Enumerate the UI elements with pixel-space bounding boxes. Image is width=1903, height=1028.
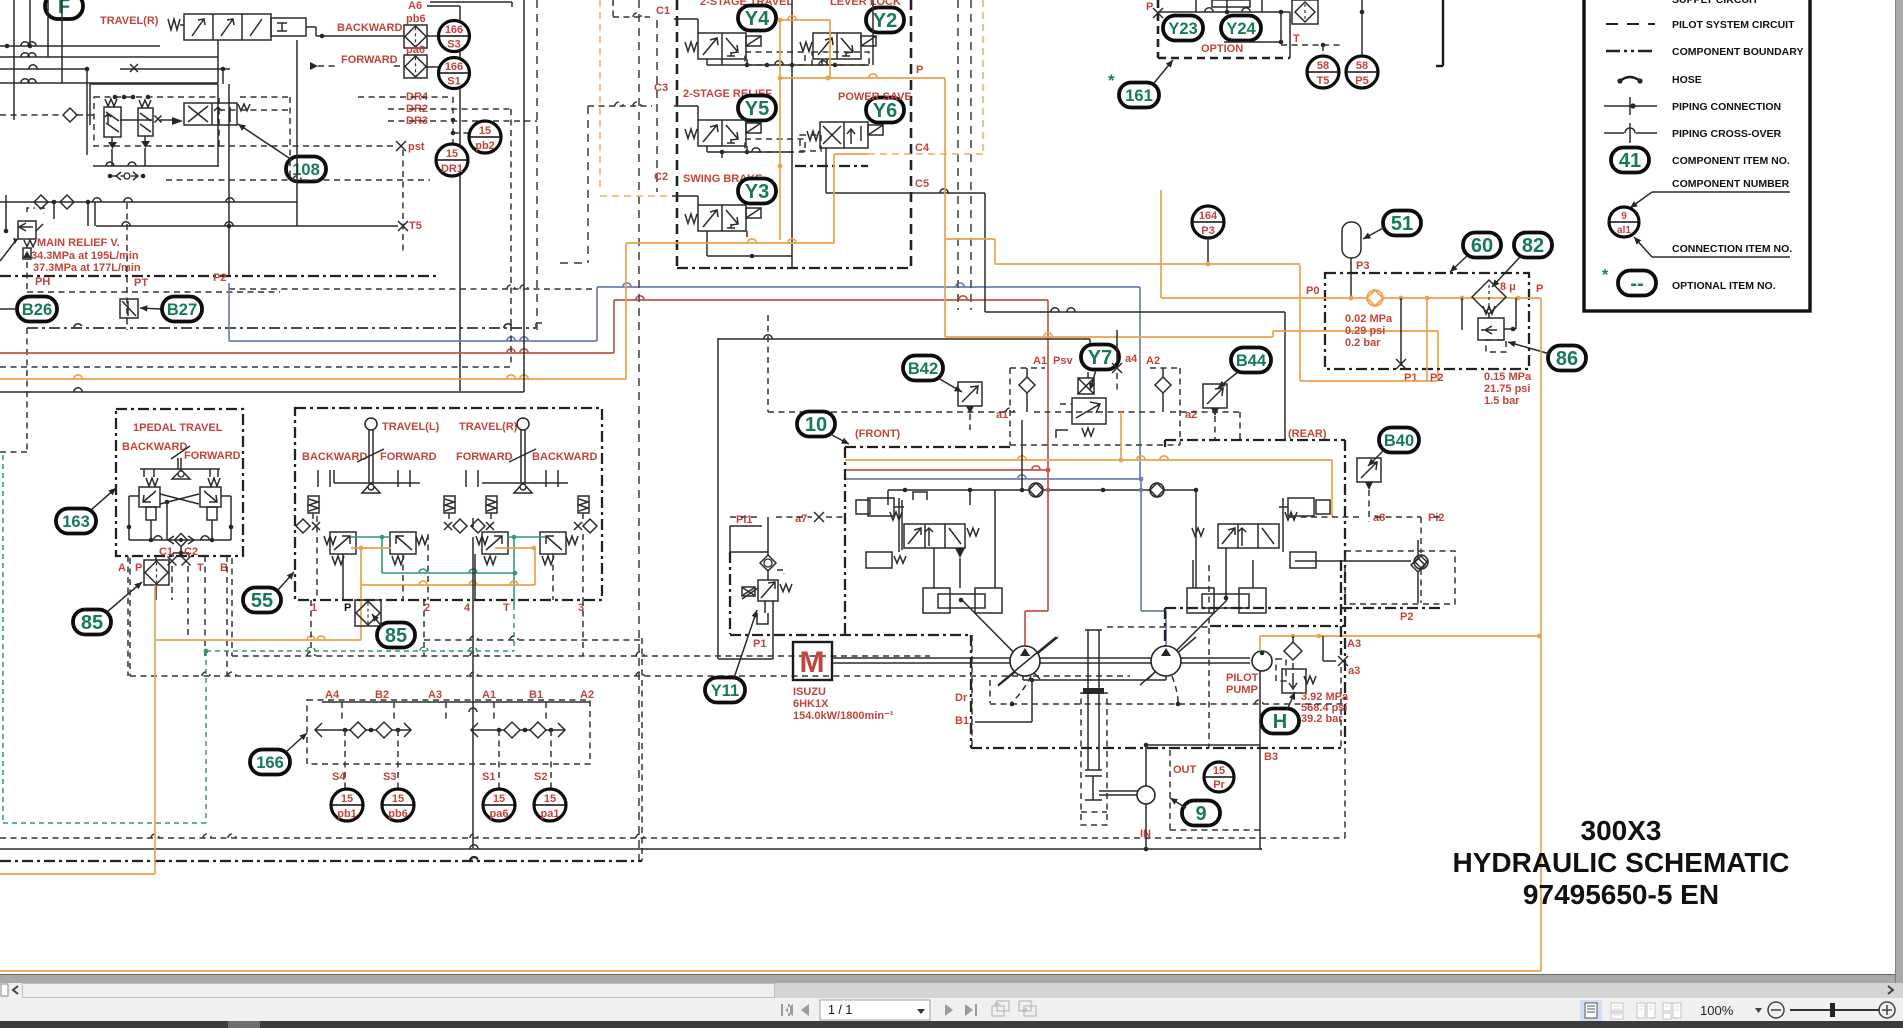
nav next/last: [945, 1004, 977, 1016]
svg-text:T: T: [503, 602, 510, 614]
svg-text:P: P: [1146, 1, 1153, 13]
svg-text:A2: A2: [1146, 355, 1160, 367]
svg-text:TRAVEL(L): TRAVEL(L): [382, 421, 440, 433]
svg-text:B26: B26: [22, 301, 52, 319]
valve small A: [104, 107, 121, 137]
svg-text:Y11: Y11: [711, 682, 739, 700]
svg-text:9: 9: [1195, 803, 1206, 825]
wire bus black return: [0, 391, 524, 393]
wire bank internal T-line: [791, 0, 793, 268]
svg-text:15: 15: [544, 793, 556, 805]
svg-text:*: *: [1108, 71, 1115, 90]
wire orange servo y460: [845, 459, 1332, 461]
scrollbar left arrow: [13, 986, 18, 994]
valve unit u5: [324, 536, 336, 545]
svg-text:B40: B40: [1384, 432, 1414, 450]
bubble 82: [1514, 233, 1552, 258]
wire manifold header: [322, 701, 590, 703]
svg-text:6HK1X: 6HK1X: [793, 698, 829, 710]
svg-text:S3: S3: [383, 771, 396, 783]
svg-text:pa1: pa1: [541, 808, 560, 820]
valve 108 directional: [184, 103, 237, 125]
wire IN: [1145, 804, 1147, 849]
svg-text:al1: al1: [1617, 225, 1631, 236]
wire T dashed: [1281, 44, 1343, 46]
damper d3: [486, 496, 497, 513]
svg-text:PIPING CROSS-OVER: PIPING CROSS-OVER: [1672, 128, 1782, 140]
wire green travel: [351, 536, 391, 538]
svg-text:COMPONENT BOUNDARY: COMPONENT BOUNDARY: [1672, 46, 1803, 58]
svg-text:100%: 100%: [1700, 1003, 1734, 1018]
wire port drops: [310, 600, 312, 651]
wire OUT: [1145, 745, 1147, 786]
svg-text:166: 166: [445, 61, 463, 73]
rail Y5: [706, 146, 708, 152]
svg-text:97495650-5 EN: 97495650-5 EN: [1523, 879, 1719, 910]
svg-text:P1: P1: [753, 638, 766, 650]
wire orange travel: [351, 547, 391, 549]
svg-text:A3: A3: [1347, 638, 1361, 650]
component 166/S1: [427, 66, 439, 68]
svg-text:163: 163: [62, 513, 90, 531]
svg-text:ISUZU: ISUZU: [793, 686, 826, 698]
svg-text:P1: P1: [1404, 372, 1417, 384]
linkage diagonal REAR: [1148, 600, 1227, 679]
check valve a1: [1019, 377, 1035, 393]
solenoid B44: [1203, 384, 1227, 408]
svg-text:Pi2: Pi2: [1428, 512, 1445, 524]
svg-text:OPTIONAL ITEM NO.: OPTIONAL ITEM NO.: [1672, 280, 1776, 292]
legend piping cross-over: [1604, 132, 1624, 134]
layout icons: [1580, 1000, 1602, 1021]
svg-text:Dr: Dr: [955, 692, 968, 704]
svg-text:15: 15: [493, 793, 505, 805]
svg-text:T: T: [197, 562, 204, 574]
svg-text:pa6: pa6: [406, 44, 425, 56]
svg-text:BACKWARD: BACKWARD: [532, 451, 597, 463]
svg-text:P3: P3: [1356, 260, 1369, 272]
wire pilot vertical x511: [510, 109, 512, 325]
svg-text:164: 164: [1199, 210, 1218, 222]
svg-text:PILOT: PILOT: [1226, 672, 1259, 684]
svg-text:Y2: Y2: [873, 10, 897, 32]
svg-text:FORWARD: FORWARD: [456, 451, 513, 463]
component accumulator 51: [1342, 222, 1361, 258]
boundary regulator dashed box: [1009, 368, 1011, 445]
svg-text:A4: A4: [325, 689, 340, 701]
sidebar toggle icon: [1, 984, 8, 996]
svg-text:pb6: pb6: [406, 13, 426, 25]
wire option top rail: [1158, 11, 1290, 13]
wire pilot vertical x537: [536, 0, 538, 330]
svg-text:Y23: Y23: [1168, 20, 1197, 38]
svg-text:BACKWARD: BACKWARD: [337, 22, 402, 34]
svg-text:a7: a7: [795, 513, 807, 525]
svg-text:Y3: Y3: [745, 181, 769, 203]
svg-text:pb1: pb1: [337, 808, 357, 820]
boundary Pi2 sub-box: [1345, 551, 1455, 604]
svg-text:TRAVEL(R): TRAVEL(R): [100, 15, 159, 27]
svg-text:Y24: Y24: [1226, 20, 1256, 38]
solenoid Y4: [738, 6, 776, 31]
svg-text:P0: P0: [1306, 285, 1319, 297]
svg-text:B42: B42: [908, 360, 938, 378]
svg-text:0.29 psi: 0.29 psi: [1345, 325, 1385, 337]
wire vertical x642 dashed: [641, 638, 643, 861]
wire A6 column: [427, 5, 460, 7]
wire BACKWARD: [306, 26, 316, 28]
viewer chrome: [0, 974, 1903, 984]
svg-text:Pi1: Pi1: [736, 514, 753, 526]
legend piping connection: [1604, 105, 1657, 107]
svg-text:300X3: 300X3: [1581, 815, 1662, 846]
bubble 108: [286, 157, 326, 182]
svg-text:B27: B27: [167, 301, 197, 319]
bubble 10: [797, 412, 835, 437]
wire P1 drop: [1400, 298, 1402, 366]
legend component item no: [1611, 148, 1649, 173]
svg-text:C4: C4: [915, 142, 930, 154]
svg-text:86: 86: [1556, 348, 1578, 370]
svg-text:A3: A3: [428, 689, 442, 701]
wire bus pilot dashed: [0, 366, 511, 368]
wire pilot vertical x657: [656, 20, 658, 192]
bubble B42: [903, 356, 943, 381]
svg-text:1: 1: [311, 602, 317, 614]
component 164/P3: [1192, 206, 1224, 238]
component B26: [17, 297, 57, 322]
wire orange P2 drop: [1426, 298, 1428, 381]
wire bus red: [0, 352, 614, 354]
pump pilot circle: [1252, 651, 1272, 671]
svg-text:8 μ: 8 μ: [1500, 281, 1516, 293]
filter pb6: [404, 25, 427, 48]
bubble 85 travel: [377, 623, 415, 648]
wire C5 line: [825, 148, 827, 193]
wire A3 column: [1340, 560, 1342, 655]
solenoid Y5: [738, 96, 776, 121]
scrollbar right arrow: [1888, 986, 1893, 994]
wire C2: [672, 195, 698, 197]
svg-text:Y7: Y7: [1088, 347, 1112, 369]
boundary 1PEDAL TRAVEL box: [116, 409, 243, 556]
svg-text:HOSE: HOSE: [1672, 74, 1702, 86]
svg-text:CONNECTION ITEM NO.: CONNECTION ITEM NO.: [1672, 243, 1792, 255]
lever travel R: [517, 418, 529, 430]
wire pilot vertical long x639: [638, 0, 640, 860]
boundary B3 dashed: [1107, 626, 1209, 628]
svg-text:PILOT SYSTEM CIRCUIT: PILOT SYSTEM CIRCUIT: [1672, 19, 1795, 31]
wire orange left return: [154, 585, 156, 874]
svg-text:B2: B2: [375, 689, 389, 701]
regulator valve REAR: [1218, 524, 1279, 548]
svg-text:pst: pst: [408, 141, 425, 153]
wire bank orange net: [779, 20, 781, 240]
svg-text:4: 4: [464, 602, 471, 614]
svg-text:10: 10: [805, 414, 827, 436]
wire a1 a2 dashes: [767, 315, 769, 412]
valve unit u6: [390, 532, 416, 554]
engine M box: [793, 642, 832, 680]
svg-text:82: 82: [1522, 235, 1544, 257]
wire Dr dashed: [971, 635, 973, 748]
svg-text:POWER SAVE: POWER SAVE: [838, 91, 912, 103]
wire to T5: [96, 225, 398, 227]
svg-text:FORWARD: FORWARD: [341, 54, 398, 66]
svg-text:Y6: Y6: [873, 100, 897, 122]
boundary FRONT pump boundary: [845, 446, 1013, 448]
wire dashed manifold feeds: [232, 655, 930, 657]
svg-text:A1: A1: [1033, 355, 1047, 367]
bubble 86: [1548, 346, 1586, 371]
svg-text:P5: P5: [1355, 75, 1368, 87]
wire travel drops: [316, 516, 318, 600]
valve small B: [138, 108, 153, 136]
wire bus blue: [228, 283, 230, 341]
wire P5 line: [1361, 0, 1363, 55]
component 15/pa1: [534, 789, 566, 821]
svg-text:M: M: [800, 646, 825, 679]
svg-text:9: 9: [1621, 211, 1627, 222]
bubble 55: [243, 588, 281, 613]
linkage diagonal FRONT: [962, 600, 1040, 679]
bubble 51: [1383, 211, 1421, 236]
svg-text:S1: S1: [482, 771, 495, 783]
svg-text:85: 85: [81, 612, 103, 634]
wire DR lines: [358, 96, 453, 98]
legend component boundary: [1606, 50, 1655, 53]
wire pump dash substructure: [990, 703, 1345, 705]
svg-text:MAIN RELIEF V.: MAIN RELIEF V.: [37, 237, 120, 249]
wire P0 orange: [1161, 297, 1541, 299]
solenoid Y2: [866, 8, 904, 33]
filter 85 pedal: [144, 560, 169, 585]
svg-text:FORWARD: FORWARD: [184, 450, 241, 462]
node F bubble: [45, 0, 83, 19]
svg-text:51: 51: [1391, 213, 1413, 235]
svg-text:S2: S2: [534, 771, 547, 783]
main relief valve: [18, 221, 36, 239]
solenoid B40: [1357, 458, 1381, 482]
svg-text:166: 166: [256, 754, 284, 772]
svg-text:C2: C2: [184, 546, 198, 558]
svg-text:P: P: [1536, 283, 1543, 295]
legend circle 9/al1: [1609, 207, 1639, 237]
svg-text:pb2: pb2: [475, 140, 495, 152]
valve Y11 proportional: [758, 580, 778, 601]
svg-text:C1: C1: [159, 546, 173, 558]
svg-text:58: 58: [1356, 60, 1368, 72]
boundary OPTION dashed box: [1157, 0, 1160, 58]
valve Y7 regulator: [1078, 378, 1094, 394]
valve travel pilot 3-pos: [184, 14, 271, 40]
svg-text:58: 58: [1317, 60, 1329, 72]
node pst: [396, 141, 406, 151]
wire bus dashed upper: [27, 327, 536, 329]
regulator valve FRONT: [904, 524, 965, 548]
bubble 60: [1463, 233, 1501, 258]
svg-text:T5: T5: [409, 220, 422, 232]
wire bottom boundary dashdot: [0, 860, 642, 862]
pump REAR circle: [1151, 646, 1181, 676]
svg-text:pb6: pb6: [388, 808, 408, 820]
wire y202 line: [0, 201, 297, 203]
svg-text:C5: C5: [915, 178, 929, 190]
filter pa6: [404, 55, 427, 78]
wire orange pilot supply: [1260, 635, 1539, 637]
damper d1: [308, 496, 319, 513]
svg-text:C1: C1: [656, 5, 670, 17]
wire FRONT valve drops: [933, 548, 935, 588]
nav first page: [781, 1004, 809, 1016]
component 15/pb2: [469, 121, 501, 153]
svg-text:A2: A2: [580, 689, 594, 701]
svg-text:PH: PH: [35, 276, 50, 288]
svg-text:15: 15: [341, 793, 353, 805]
svg-text:P: P: [344, 602, 351, 614]
svg-text:41: 41: [1619, 150, 1641, 172]
wire bus orange: [0, 378, 626, 380]
svg-text:85: 85: [385, 625, 407, 647]
svg-text:0.02 MPa: 0.02 MPa: [1345, 313, 1393, 325]
check diamond row: [296, 519, 310, 533]
damper d2: [444, 496, 455, 513]
component 15/DR1: [436, 144, 468, 176]
svg-text:37.3MPa at 177L/min: 37.3MPa at 177L/min: [33, 262, 141, 274]
svg-text:21.75 psi: 21.75 psi: [1484, 383, 1530, 395]
wire green dashed net: [206, 650, 514, 652]
svg-text:15: 15: [1213, 765, 1225, 777]
svg-text:COMPONENT ITEM NO.: COMPONENT ITEM NO.: [1672, 155, 1790, 167]
valve unit u8: [540, 532, 566, 554]
boundary P2 dashdot: [1165, 607, 1440, 609]
rail Y4-Y2: [706, 59, 708, 65]
shuttle row right: [471, 723, 478, 737]
svg-text:pa6: pa6: [490, 808, 509, 820]
component 15/pb6: [382, 789, 414, 821]
shuttle diamond: [175, 534, 188, 547]
pump FRONT circle: [1010, 646, 1040, 676]
wire grid top-left: [0, 45, 160, 47]
svg-text:2: 2: [424, 602, 430, 614]
wire a8 dashed: [1290, 516, 1360, 518]
wire lever stubs: [317, 470, 319, 487]
pump 9 circle: [1137, 786, 1155, 804]
boundary travel lever box: [295, 408, 602, 600]
svg-text:S3: S3: [447, 39, 460, 51]
wire orange dashed x602: [599, 0, 601, 191]
svg-text:T5: T5: [1317, 75, 1330, 87]
boundary filter box 60: [1325, 273, 1529, 369]
solenoid Y6: [866, 98, 904, 123]
svg-text:C3: C3: [654, 82, 668, 94]
bubble 166: [250, 750, 290, 775]
svg-text:15: 15: [479, 125, 491, 137]
component 15/pa6: [483, 789, 515, 821]
svg-text:Pr: Pr: [1213, 779, 1225, 791]
component 15/Pr: [1204, 762, 1234, 792]
status lighter segment: [228, 1021, 260, 1028]
wire pedal cross links: [160, 494, 199, 504]
svg-text:P: P: [916, 64, 923, 76]
svg-text:161: 161: [1125, 87, 1153, 105]
svg-text:*: *: [1602, 267, 1609, 284]
svg-text:a2: a2: [1185, 409, 1197, 421]
wire option inner: [1280, 12, 1282, 42]
svg-text:154.0kW/1800min⁻¹: 154.0kW/1800min⁻¹: [793, 710, 894, 722]
check valve a7: [764, 559, 772, 567]
snapshot icons: [992, 1001, 1009, 1016]
bubble B27: [162, 297, 202, 322]
svg-text:COMPONENT NUMBER: COMPONENT NUMBER: [1672, 178, 1790, 190]
node a4 X: [1112, 363, 1122, 373]
wire pilot vertical x588: [587, 106, 589, 263]
svg-text:TRAVEL(R): TRAVEL(R): [459, 421, 518, 433]
svg-text:DR1: DR1: [441, 163, 463, 175]
wire Pi1 column: [717, 338, 719, 659]
svg-text:55: 55: [251, 590, 273, 612]
wire pump case drain: [1023, 679, 1166, 681]
svg-text:a3: a3: [1348, 665, 1360, 677]
component 166/S3: [427, 35, 439, 37]
wire pilot verticals x958 x971: [957, 0, 959, 310]
svg-text:B44: B44: [1236, 352, 1267, 370]
svg-text:H: H: [1273, 711, 1287, 733]
svg-text:OUT: OUT: [1173, 764, 1197, 776]
gearbox: [1081, 693, 1107, 825]
svg-text:a8: a8: [1373, 512, 1385, 524]
svg-text:PUMP: PUMP: [1226, 684, 1258, 696]
svg-text:SUPPLY CIRCUIT: SUPPLY CIRCUIT: [1672, 0, 1759, 6]
wire C3: [588, 105, 652, 107]
bubble 163: [56, 509, 96, 534]
corner piece right of OPTION: [1442, 0, 1444, 66]
svg-text:--: --: [1630, 273, 1643, 295]
solenoid B42: [958, 382, 982, 406]
component 58/P5: [1346, 56, 1378, 88]
solenoid Y24: [1221, 16, 1261, 41]
damper d4: [578, 496, 589, 513]
pedal rocker: [171, 446, 190, 459]
svg-text:B1: B1: [529, 689, 543, 701]
svg-text:OPTION: OPTION: [1201, 43, 1243, 55]
page combo: [820, 1000, 930, 1020]
svg-text:Y4: Y4: [745, 8, 770, 30]
wire orange long right: [1540, 298, 1542, 971]
svg-text:(REAR): (REAR): [1288, 428, 1327, 440]
svg-text:a4: a4: [1125, 353, 1138, 365]
svg-text:P3: P3: [1201, 225, 1214, 237]
wire B1 line: [975, 721, 1032, 723]
wire B3 column: [1259, 671, 1261, 849]
svg-text:FORWARD: FORWARD: [380, 451, 437, 463]
svg-text:P: P: [135, 562, 142, 574]
boundary dashed box 108: [94, 97, 219, 146]
svg-text:B3: B3: [1264, 751, 1278, 763]
boundary bottom: [0, 275, 440, 277]
lever travel L: [365, 418, 377, 430]
valve pedal right: [208, 478, 220, 486]
bubble Y7: [1081, 345, 1119, 370]
legend hose: [1620, 77, 1640, 81]
svg-text:Psv: Psv: [1053, 355, 1073, 367]
svg-text:15: 15: [392, 793, 404, 805]
svg-text:1.5 bar: 1.5 bar: [1484, 395, 1520, 407]
pilot relief H: [1284, 642, 1302, 660]
component 15/pb1: [331, 789, 363, 821]
piston FRONT: [923, 588, 950, 613]
svg-text:Y5: Y5: [745, 98, 769, 120]
